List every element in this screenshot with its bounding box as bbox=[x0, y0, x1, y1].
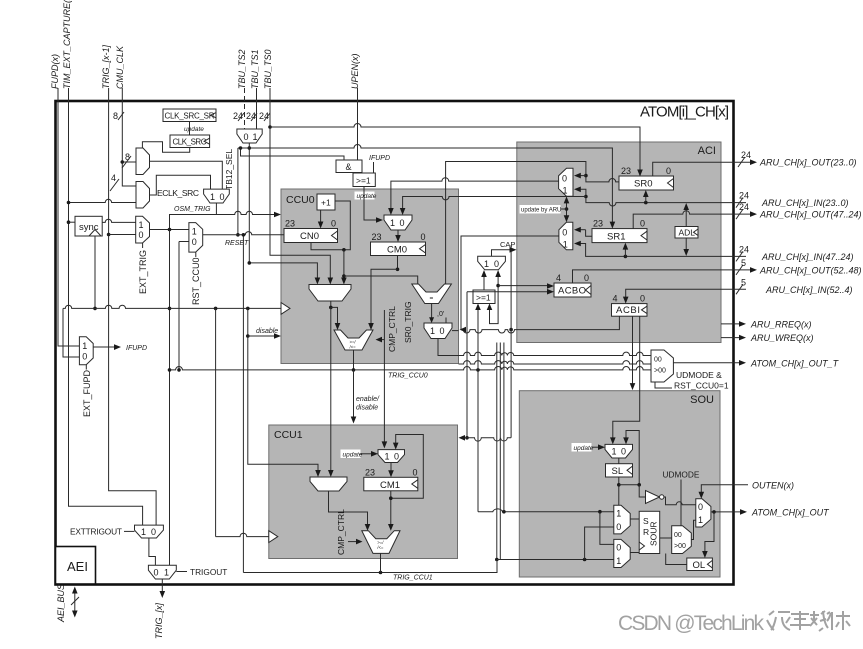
arrow OSM_TRIG into CCU0 bbox=[274, 212, 281, 218]
wire sync out to EXT_TRIG mux input 0 bbox=[102, 219, 136, 222]
watermark hanzi 4 bbox=[827, 611, 850, 630]
wire FUPD(x) into EXT_FUPD mux input 1 bbox=[58, 88, 79, 346]
wire SL loop into mux in0 bbox=[626, 431, 639, 485]
arrow into CMP in1 bbox=[335, 323, 341, 330]
block SOU 00>00 bbox=[672, 526, 692, 554]
wire ACBO out to ARU_OUT(52..48) bbox=[573, 270, 753, 283]
svg-text:,0': ,0' bbox=[437, 311, 444, 318]
node junction x247.8 y308 bbox=[246, 307, 250, 311]
port ATOM_CH[x]_OUT bbox=[714, 507, 830, 517]
svg-text:0: 0 bbox=[244, 132, 249, 142]
wire CM1 feedback loop into mux in0 bbox=[391, 435, 424, 499]
sync box bbox=[75, 216, 102, 236]
port ARU_WREQ(x) bbox=[721, 333, 814, 343]
watermark hanzi 3 bbox=[810, 611, 830, 631]
register CM1 bbox=[364, 467, 418, 491]
bus width 24/24/24 marks at TB12_SEL bbox=[233, 111, 270, 121]
comparator equal (=) bbox=[412, 284, 452, 304]
svg-text:1: 1 bbox=[385, 452, 390, 462]
svg-text:CMU_CLK: CMU_CLK bbox=[115, 45, 125, 89]
wire CCU1 chevron feed y536.6 bbox=[216, 533, 269, 536]
bus mark 8 mid bbox=[122, 152, 131, 168]
node junction CCU1 cmp out bbox=[379, 571, 383, 575]
wire TRIG_CCU0 bus bbox=[170, 367, 652, 370]
wire EXTTRIGOUT label stub bbox=[124, 530, 135, 532]
label update SOU bbox=[572, 443, 606, 452]
wire eq out to SR0_TRIG mux bbox=[431, 304, 433, 320]
svg-text:>=1: >=1 bbox=[476, 293, 491, 303]
svg-text:ACI: ACI bbox=[698, 145, 716, 157]
svg-text:0: 0 bbox=[151, 527, 156, 537]
arrow into CCU1 update mux in1 bbox=[382, 441, 388, 448]
svg-text:ARU_CH[x]_OUT(52..48): ARU_CH[x]_OUT(52..48) bbox=[759, 265, 862, 275]
mux ECLK_SRC select bbox=[204, 189, 230, 203]
node junction trap out bbox=[329, 306, 333, 310]
gate OR (>=1) bbox=[353, 173, 375, 187]
node junction x243.4 reset bbox=[242, 233, 246, 237]
wire const into mux bbox=[445, 318, 447, 324]
wire TIM to sync input bbox=[69, 221, 76, 223]
wire ARU_IN(52..4) into ACBI bbox=[626, 289, 746, 299]
svg-text:0: 0 bbox=[640, 294, 645, 304]
wire IFUPD into OR gate bbox=[373, 162, 375, 173]
mux trapezoid CCU1 (2 input) bbox=[310, 477, 347, 491]
wire cap into ACBO in1 bbox=[498, 285, 549, 287]
svg-text:23: 23 bbox=[372, 232, 382, 242]
arrow into CM0 mux in0 top bbox=[400, 208, 406, 215]
wire sync clock from bus y308 bbox=[94, 236, 96, 308]
arrow into SR1 top bbox=[610, 222, 616, 229]
arrow cap input into SR0_TRIG mux right bbox=[452, 330, 459, 332]
wire SR0 bottom write arrow bbox=[645, 195, 647, 203]
wire trap out to CMP comparator bbox=[331, 307, 338, 325]
wire OR out into CAP mux in1 bbox=[483, 275, 485, 291]
arrow disable bbox=[274, 333, 281, 339]
wire ADL down arrow to IN(47..24) bbox=[685, 238, 687, 252]
svg-text:0: 0 bbox=[666, 166, 671, 176]
arrow into CMP in2 bbox=[368, 323, 374, 330]
watermark hanzi 2 bbox=[790, 611, 810, 630]
svg-text:EXT_FUPD: EXT_FUPD bbox=[82, 369, 92, 417]
node junction x169.5 y369.9 bbox=[168, 368, 172, 372]
outer module frame ATOM[i]_CH[x] bbox=[56, 101, 734, 585]
wire CLK_SRC_SR to CLK_SRC bbox=[189, 122, 191, 136]
svg-text:SR1: SR1 bbox=[607, 232, 625, 243]
mux TRIGOUT bbox=[148, 565, 176, 579]
wire ARU in to CM0 mux in0 bbox=[403, 197, 517, 211]
mux SOU sel1 bbox=[614, 505, 630, 534]
node junction TRIG to EXT_TRIG mux bbox=[107, 233, 111, 237]
mux ACI SR1 select bbox=[559, 222, 573, 250]
svg-text:0: 0 bbox=[494, 259, 499, 269]
svg-text:update: update bbox=[184, 126, 204, 133]
port ARU_CH[x]_IN(47..24) bbox=[736, 244, 854, 262]
wire CCU0 corner line y364 to UDMODE block bbox=[459, 361, 652, 364]
wire CM1 out down bbox=[390, 491, 392, 526]
wire CMP_CTRL stub into CMP1 bbox=[348, 541, 357, 543]
block CCU0 bbox=[281, 189, 459, 364]
svg-text:5: 5 bbox=[741, 277, 746, 287]
svg-text:1: 1 bbox=[612, 447, 617, 457]
wire into inverter bbox=[639, 485, 645, 497]
node junction x169.5 y308 bbox=[168, 307, 172, 311]
arrow into CCU1 trapezoid input right bbox=[328, 470, 334, 477]
wire mux1 out to S bbox=[630, 518, 639, 520]
port ARU_RREQ(x) bbox=[721, 319, 812, 329]
svg-text:CM0: CM0 bbox=[387, 245, 407, 256]
svg-text:5: 5 bbox=[741, 258, 746, 268]
wire vertical x503.9 ACI bottom to lineA bbox=[503, 343, 505, 512]
wire TBU_TS0 down then right into CCU0 bbox=[270, 88, 330, 280]
svg-text:0: 0 bbox=[139, 230, 144, 240]
gate inverter bbox=[646, 491, 664, 504]
wire AND gate left input bbox=[241, 148, 345, 160]
node junction SL out bbox=[617, 483, 621, 487]
wire SL out lateral bbox=[619, 484, 639, 486]
node chevron input CCU0 left bbox=[281, 303, 290, 315]
svg-text:00: 00 bbox=[654, 357, 662, 364]
svg-text:+1: +1 bbox=[321, 198, 331, 208]
watermark hanzi 1 bbox=[767, 611, 790, 630]
arrow into CM0 top bbox=[395, 235, 401, 242]
svg-text:TRIG_[x]: TRIG_[x] bbox=[154, 602, 164, 639]
box +1 increment bbox=[317, 194, 335, 210]
wire ACBI down to SOU arrow bbox=[632, 316, 634, 386]
label UDMODE & RST_CCU0=1 bbox=[655, 370, 729, 391]
svg-text:update: update bbox=[343, 452, 363, 459]
svg-text:8: 8 bbox=[113, 111, 118, 121]
svg-text:0: 0 bbox=[421, 232, 426, 242]
register ACBI bbox=[612, 294, 648, 317]
svg-text:FUPD(x): FUPD(x) bbox=[50, 54, 60, 89]
wire CM0 value to CMP comparator bbox=[371, 269, 398, 325]
register ACBO bbox=[554, 273, 591, 297]
svg-text:4: 4 bbox=[111, 173, 116, 183]
node junction x498 acbo branch bbox=[496, 284, 500, 288]
svg-text:CAP: CAP bbox=[500, 240, 515, 249]
wire +1 to CN0 bbox=[320, 210, 322, 224]
node chevron input CCU1 left bbox=[269, 531, 278, 543]
wire CMP1 out to TRIG_CCU1 bbox=[380, 553, 382, 572]
node junction CMP out on TRIG_CCU0 bbox=[352, 368, 356, 372]
svg-text:CM1: CM1 bbox=[380, 480, 400, 491]
register CM0 bbox=[371, 232, 426, 256]
wire EXT_TRIG label stub bbox=[142, 243, 144, 248]
svg-text:sync: sync bbox=[79, 222, 99, 233]
svg-text:1: 1 bbox=[253, 132, 258, 142]
node junction x467 y437.8 bbox=[465, 436, 469, 440]
wire vertical x247.8 down to CCU1 trapezoid feed bbox=[248, 308, 318, 472]
wire vertical x215.6 down to CCU1 chevron line bbox=[215, 308, 217, 536]
svg-text:RST_CCU0: RST_CCU0 bbox=[191, 257, 201, 305]
wire lineB branch up to mux1 in0 bbox=[585, 527, 614, 560]
svg-text:OUTEN(x): OUTEN(x) bbox=[752, 480, 794, 490]
wire left drop x63 to EXT_FUPD input 0 bbox=[63, 308, 79, 357]
svg-text:>=1: >=1 bbox=[356, 176, 371, 186]
svg-text:TRIGOUT: TRIGOUT bbox=[190, 567, 227, 577]
svg-text:disable: disable bbox=[256, 328, 278, 335]
svg-text:IFUPD: IFUPD bbox=[369, 155, 390, 162]
register CLK_SRC bbox=[170, 135, 210, 148]
svg-text:ARU_CH[x]_IN(47..24): ARU_CH[x]_IN(47..24) bbox=[761, 252, 854, 262]
svg-text:TBU_TS2: TBU_TS2 bbox=[237, 49, 247, 89]
node junction TBU_TS0 at y127 bbox=[268, 125, 272, 129]
comparator CMP1 greater/less bbox=[362, 531, 400, 554]
wire SR1 out to ARU_OUT(47..24) bbox=[633, 211, 752, 229]
svg-text:ARU_WREQ(x): ARU_WREQ(x) bbox=[750, 333, 814, 343]
wire ACI mux1 out to CM0 mux in1 bbox=[391, 178, 559, 211]
svg-text:ARU_CH[x]_OUT(23..0): ARU_CH[x]_OUT(23..0) bbox=[759, 158, 857, 168]
node junction SR0 write-back bbox=[644, 201, 648, 205]
port ARU_CH[x]_IN(52..4) bbox=[736, 277, 853, 295]
wire CMP out down to TRIG_CCU0 bbox=[353, 350, 355, 370]
svg-text:UDMODE: UDMODE bbox=[663, 470, 700, 480]
wire IFUPD output bbox=[93, 346, 116, 348]
port ARU_CH[x]_OUT(23..0) bbox=[738, 150, 857, 168]
wire SOUR to 00>00 bbox=[660, 537, 672, 539]
node junction EXT_TRIG out x169.5 bbox=[168, 228, 172, 232]
svg-text:24: 24 bbox=[741, 150, 751, 160]
wire 00>00 out to out mux in1 bbox=[691, 520, 696, 539]
wire clock mux1 out to ECLK mux input 0 bbox=[150, 161, 223, 189]
svg-text:24: 24 bbox=[739, 244, 749, 254]
svg-text:/<=: /<= bbox=[349, 345, 357, 350]
node junction inverter tap bbox=[637, 483, 641, 487]
wire OSM_TRIG into CCU0 bbox=[170, 211, 277, 229]
svg-text:0: 0 bbox=[82, 352, 87, 362]
svg-text:ARU_RREQ(x): ARU_RREQ(x) bbox=[750, 319, 812, 329]
svg-text:IFUPD: IFUPD bbox=[126, 345, 147, 352]
svg-text:0: 0 bbox=[562, 174, 567, 184]
wire CMP_CTRL stub into CMP bbox=[381, 339, 384, 341]
svg-text:ATOM[i]_CH[x]: ATOM[i]_CH[x] bbox=[640, 104, 729, 121]
wire EXTTRIGOUT out to TRIGOUT mux bbox=[149, 538, 156, 565]
arrow into trapezoid in1 bbox=[315, 278, 321, 285]
label update CCU1 bbox=[341, 450, 379, 459]
svg-text:24: 24 bbox=[739, 191, 749, 201]
svg-text:1: 1 bbox=[164, 568, 169, 578]
svg-text:UDMODE &: UDMODE & bbox=[676, 370, 722, 380]
node junction x215.6 y308 bbox=[214, 307, 218, 311]
wire vertical x179 from RST input down to TRIG_CCU0 bbox=[178, 242, 180, 370]
svg-text:1: 1 bbox=[616, 509, 621, 519]
wire cap value vertical x498 bbox=[490, 275, 499, 324]
wire EXT_FUPD label stub bbox=[85, 365, 87, 370]
svg-text:ATOM_CH[x]_OUT: ATOM_CH[x]_OUT bbox=[751, 507, 830, 517]
comparator CMP greater/less bbox=[334, 330, 373, 350]
mux CM0 update select bbox=[384, 215, 412, 230]
wire CMU_CLK down to clock muxes bbox=[122, 88, 136, 186]
wire mux2 out to R bbox=[630, 552, 639, 554]
wire enable/disable into CCU1 bbox=[353, 370, 355, 419]
register SL bbox=[606, 464, 633, 477]
wire SOU feed line B y559.5 bbox=[497, 559, 614, 561]
svg-text:ARU_CH[x]_IN(23..0): ARU_CH[x]_IN(23..0) bbox=[761, 198, 849, 208]
node junction x477 on TRIG_CCU0 bbox=[476, 368, 480, 372]
svg-text:OSM_TRIG: OSM_TRIG bbox=[174, 206, 211, 213]
svg-text:CMP_CTRL: CMP_CTRL bbox=[336, 509, 346, 555]
node junction CM1 out bbox=[389, 496, 393, 500]
port AEI_BUS double arrow bbox=[71, 587, 79, 618]
port ARU_CH[x]_OUT(52..48) bbox=[736, 258, 862, 275]
svg-text:>00: >00 bbox=[674, 543, 686, 550]
svg-text:CSDN @TechLink: CSDN @TechLink bbox=[618, 612, 765, 635]
label update (clk) bbox=[182, 125, 204, 134]
svg-text:UPEN(x): UPEN(x) bbox=[350, 53, 360, 89]
wire lineA branch down to mux2 in0 bbox=[600, 512, 614, 545]
mux CM1 update select bbox=[378, 450, 405, 463]
svg-text:TBU_TS0: TBU_TS0 bbox=[263, 49, 273, 89]
wire SR0_TRIG capture feed y329.6 from ACBI bbox=[461, 316, 619, 333]
mux TB12_SEL bbox=[237, 129, 262, 143]
svg-text:0: 0 bbox=[440, 326, 445, 336]
svg-text:&: & bbox=[346, 162, 352, 172]
svg-text:24: 24 bbox=[739, 202, 749, 212]
wire CM0 mux out to CM0 bbox=[397, 230, 399, 238]
svg-text:EXT_TRIG: EXT_TRIG bbox=[138, 250, 148, 294]
mux SOU output select bbox=[696, 499, 711, 527]
wire TBU_TS2 dashed into TB12_SEL mux bbox=[244, 88, 246, 129]
node junction x511 y329.6 bbox=[509, 328, 513, 332]
svg-text:update by ARU: update by ARU bbox=[521, 208, 561, 214]
wire ADL up arrow to IN(23..0) bbox=[685, 207, 687, 227]
svg-text:update: update bbox=[357, 193, 377, 200]
node junction TIM to sync bbox=[67, 220, 71, 224]
node junction TB12 into CCU0 bbox=[248, 261, 252, 265]
wire clock mux2 out to ECLK mux input 1 bbox=[150, 175, 211, 195]
register CLK_SRC_SR bbox=[163, 109, 216, 122]
wire disable into CCU0 bbox=[248, 335, 276, 337]
svg-text:/<=: /<= bbox=[376, 545, 384, 550]
svg-text:1: 1 bbox=[563, 186, 568, 196]
wire bus y127 TBU_TS0 to SR0 bbox=[270, 124, 640, 172]
block UDMODE RST shape 00>00 bbox=[651, 350, 673, 382]
wire stub into ACI mux1 in0 bbox=[579, 175, 586, 177]
wire trapezoid out down bbox=[330, 301, 332, 307]
wire SR1 bottom write arrow bbox=[624, 247, 626, 256]
mux SR0_TRIG select bbox=[424, 323, 452, 339]
node junction x179 y369.9 bbox=[177, 368, 181, 372]
svg-text:TIM_EXT_CAPTURE(x): TIM_EXT_CAPTURE(x) bbox=[62, 0, 72, 89]
wire TB12 clock into trapezoid bbox=[249, 263, 317, 280]
svg-text:CN0: CN0 bbox=[300, 231, 319, 242]
svg-text:0: 0 bbox=[154, 568, 159, 578]
node junction SR0 net to mux bbox=[584, 174, 588, 178]
mux clock select 2 (ECLK pre) bbox=[136, 182, 150, 209]
svg-text:CMP_CTRL: CMP_CTRL bbox=[387, 306, 397, 352]
arrow CAP into ACI bbox=[510, 247, 517, 253]
svg-text:1: 1 bbox=[430, 326, 435, 336]
wire SR0 write-data net to eq comparator and SR0 bbox=[446, 162, 619, 285]
arrow into SR0 top bbox=[637, 170, 643, 177]
gate OR cap (>=1) bbox=[473, 290, 495, 304]
block SOU bbox=[519, 391, 720, 577]
svg-text:TRIG_CCU1: TRIG_CCU1 bbox=[393, 575, 433, 582]
arrow update feed into CCU1 right bbox=[459, 435, 466, 441]
port ARU_CH[x]_IN(23..0) bbox=[736, 191, 849, 208]
svg-text:SR0_TRIG: SR0_TRIG bbox=[403, 301, 413, 343]
svg-text:OL: OL bbox=[693, 560, 706, 571]
wire OR out (update) to CM0 mux input 1 bbox=[364, 187, 379, 221]
svg-text:ECLK_SRC: ECLK_SRC bbox=[157, 188, 199, 198]
wire OR left input from TRIG_CCU0 vertical bbox=[477, 308, 479, 370]
wire vertical x511 ARU update feed bbox=[510, 245, 512, 438]
wire long vertical x169.5 OSM/trig distribution bbox=[169, 230, 171, 566]
svg-text:1: 1 bbox=[192, 227, 197, 237]
svg-text:ADL: ADL bbox=[679, 228, 696, 238]
wire TRIG branch to EXT_TRIG mux input 1 bbox=[109, 234, 136, 236]
block CCU1 bbox=[269, 425, 458, 559]
wire inverter out to out mux bbox=[664, 497, 696, 505]
svg-text:1: 1 bbox=[139, 220, 144, 230]
svg-text:4: 4 bbox=[613, 294, 618, 304]
svg-text:ATOM_CH[x]_OUT_T: ATOM_CH[x]_OUT_T bbox=[750, 358, 840, 368]
arrow into trapezoid in2 bbox=[328, 278, 334, 285]
wire TB12_SEL output down bbox=[248, 143, 250, 263]
wire update vertical into CCU1 mux bbox=[383, 310, 385, 444]
arrow capture feed into CCU0 bbox=[460, 327, 467, 333]
arrow into trapezoid in3 bbox=[341, 278, 347, 285]
svg-text:>00: >00 bbox=[654, 368, 666, 375]
register CN0 bbox=[284, 219, 338, 243]
wire AND out to OR bbox=[348, 172, 350, 175]
svg-text:0: 0 bbox=[220, 192, 225, 202]
svg-text:AEI_BUS: AEI_BUS bbox=[56, 584, 66, 623]
wire vertical x467 ACBO line down bbox=[466, 292, 468, 438]
wire trapezoid out to CMP1 bbox=[329, 491, 368, 526]
wire mux out to SL bbox=[618, 458, 620, 464]
svg-text:TRIG_[x-1]: TRIG_[x-1] bbox=[101, 44, 111, 89]
svg-text:SL: SL bbox=[612, 466, 624, 477]
svg-text:SOUR: SOUR bbox=[649, 521, 659, 546]
label TRIGOUT bbox=[176, 567, 227, 577]
svg-text:TBU_TS1: TBU_TS1 bbox=[250, 49, 260, 89]
svg-text:0: 0 bbox=[616, 543, 621, 553]
svg-text:ARU_CH[x]_OUT(47..24): ARU_CH[x]_OUT(47..24) bbox=[759, 210, 862, 220]
mux EXT_TRIG bbox=[136, 216, 150, 243]
wire TBU_TS1 into TB12_SEL mux bbox=[256, 88, 258, 129]
wire TRIG_CCU1 bus bbox=[243, 560, 497, 573]
wire SOU feed line A y511.7 bbox=[478, 509, 614, 512]
mux SL update select bbox=[605, 444, 633, 458]
svg-text:1: 1 bbox=[390, 218, 395, 228]
node junction CM0 out bbox=[396, 268, 400, 272]
node junction CN0 value to eq bbox=[342, 274, 346, 278]
wire vertical x478 down to SOU feed bbox=[477, 370, 479, 512]
wire ECLK mux out to OSM_TRIG line bbox=[215, 203, 217, 215]
node junction CN0 loop bbox=[342, 248, 346, 252]
svg-text:0: 0 bbox=[192, 237, 197, 247]
node junction x240.5 y148 bbox=[239, 146, 243, 150]
wire into ACBO in2 bbox=[467, 291, 550, 293]
node junction TIM tap bbox=[67, 201, 71, 205]
svg-text:EXTTRIGOUT: EXTTRIGOUT bbox=[70, 527, 122, 537]
wire SR0 out to ARU_OUT(23..0) bbox=[653, 162, 752, 176]
wire update-by-ARU link between muxes bbox=[566, 200, 568, 219]
wire CM1 mux out to CM1 bbox=[390, 463, 392, 473]
svg-text:0: 0 bbox=[621, 447, 626, 457]
svg-text:0: 0 bbox=[698, 502, 703, 512]
wire RESET line to CN0 bbox=[203, 232, 284, 235]
svg-text:ACBO: ACBO bbox=[558, 286, 586, 297]
svg-text:=: = bbox=[430, 295, 434, 302]
register SR1 bbox=[592, 219, 647, 243]
block AEI bbox=[56, 547, 96, 585]
wire stub into ACI mux2 in0 bbox=[579, 229, 586, 231]
arrow into CN0 top bbox=[318, 222, 324, 229]
wire CLK_SRC to clock mux1 select bbox=[142, 142, 189, 152]
node junction x247.8 disable bbox=[246, 334, 250, 338]
